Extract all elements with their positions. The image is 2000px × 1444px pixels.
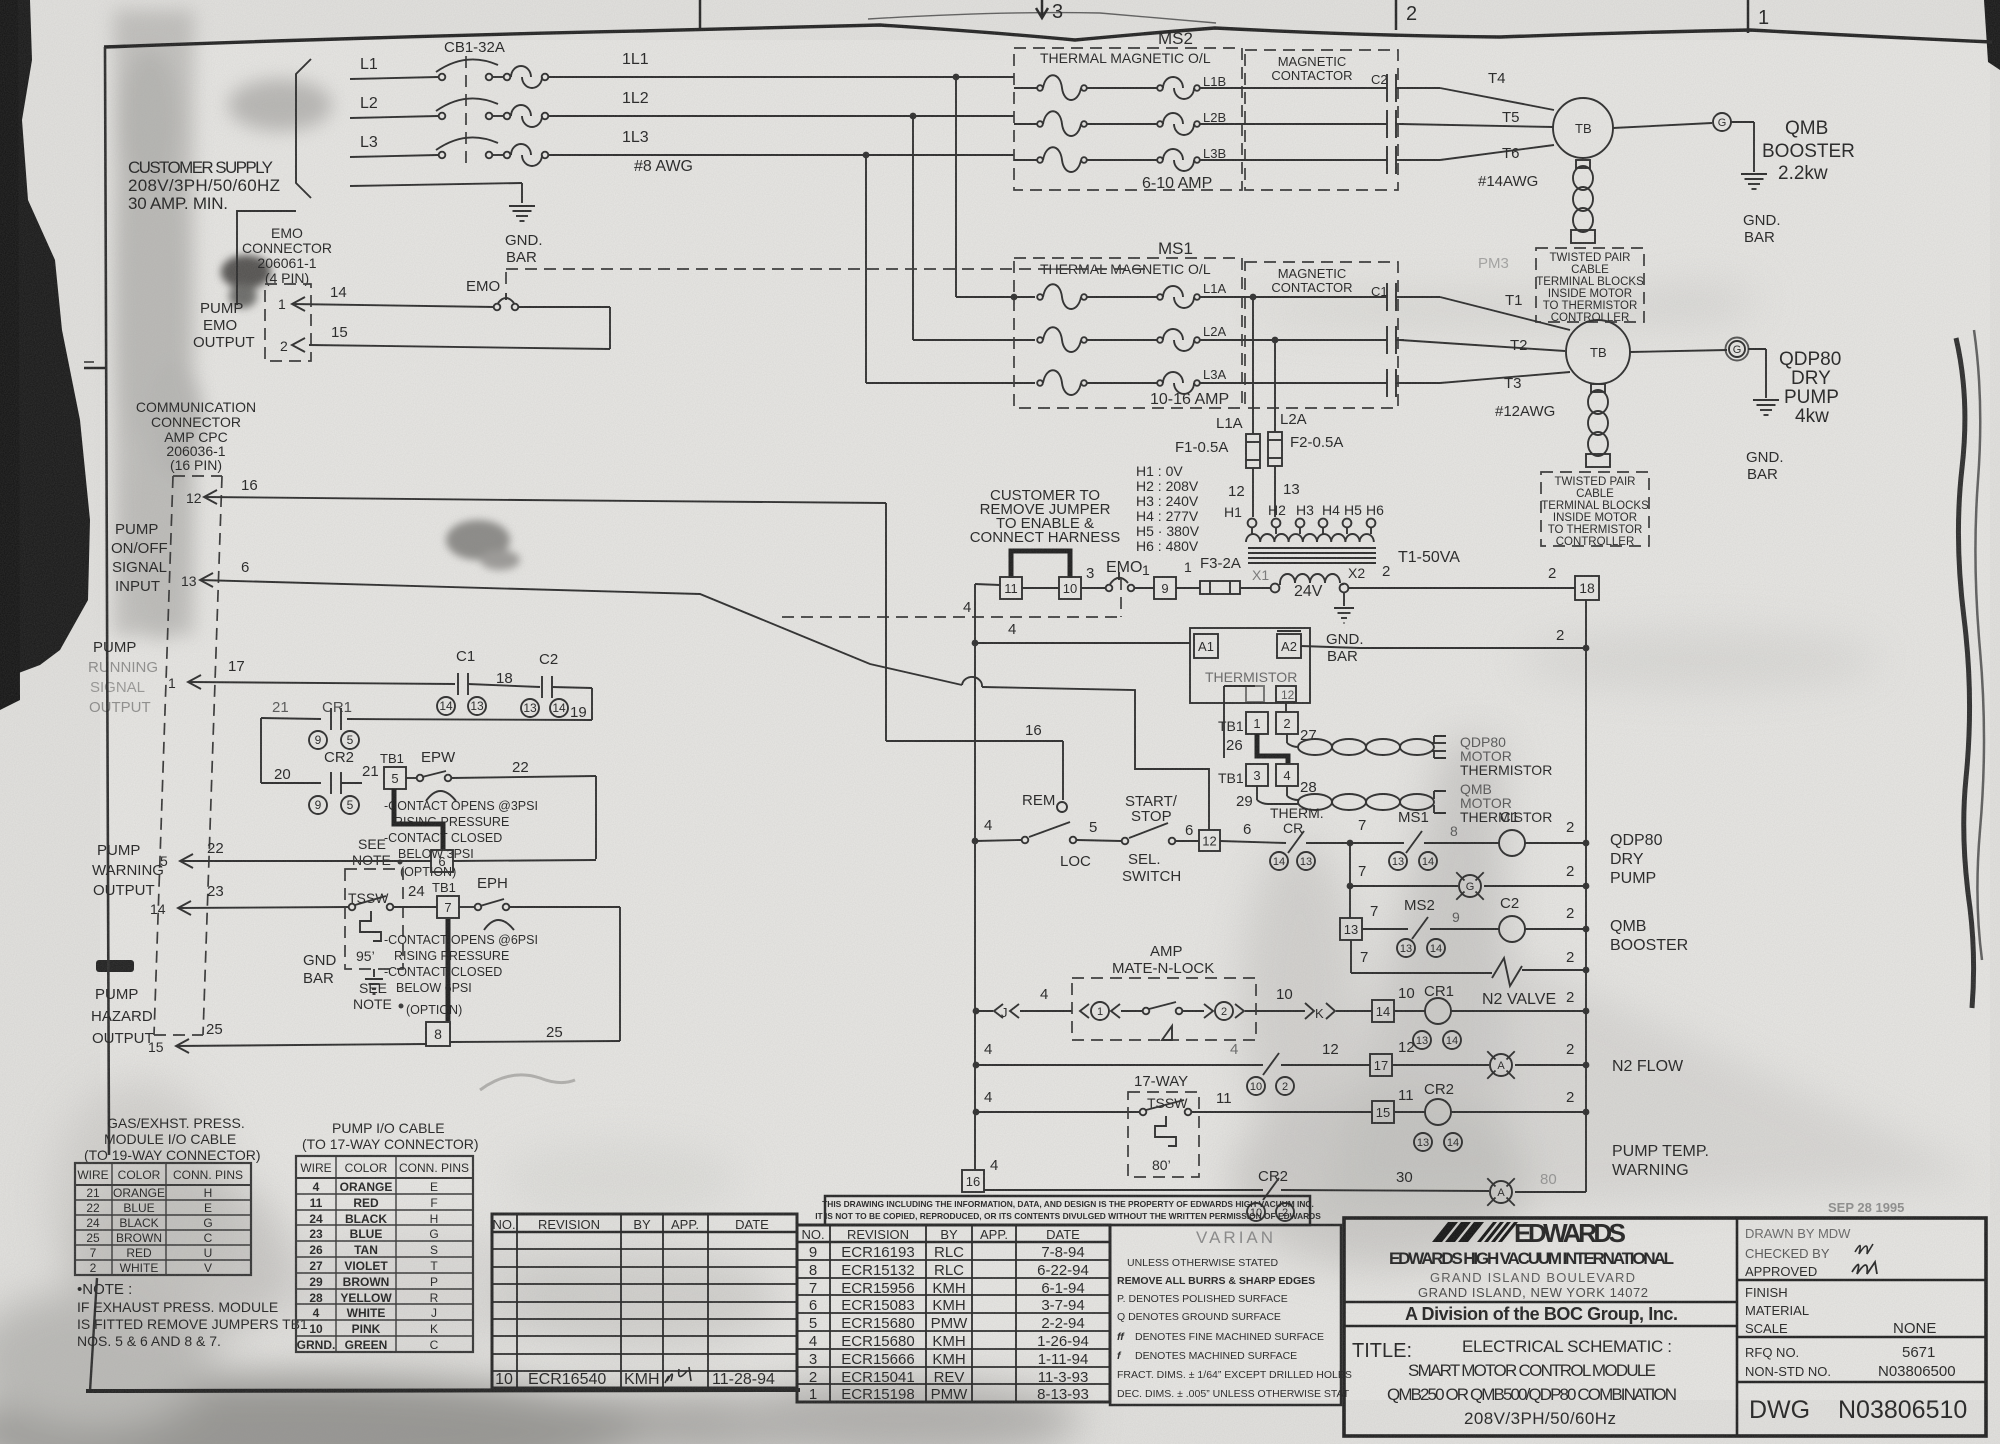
sel switch row — [972, 838, 979, 845]
left control bus — [974, 584, 976, 1170]
thermistor controller box — [1190, 628, 1310, 703]
secondary to X1 X2 — [1340, 584, 1344, 585]
wire 27 to twisted pair — [1286, 734, 1288, 743]
pump i/o wire table — [296, 1156, 473, 1352]
MS1 pole L3A — [1037, 380, 1043, 386]
ground bar symbol supply — [509, 205, 535, 207]
wire 14 — [292, 304, 494, 307]
T1 T2 T3 wires to dry pump motor — [1400, 296, 1440, 298]
TB1 terminal 8 — [426, 1022, 450, 1046]
margin tick — [84, 367, 105, 370]
A2 wire to bus — [1301, 646, 1360, 648]
fuse clips L2 — [511, 105, 531, 116]
edwards logo — [1432, 1222, 1458, 1242]
property text box — [825, 1196, 1310, 1225]
left border line — [105, 47, 109, 1155]
fuse F2 — [1268, 432, 1282, 466]
zone tick 2 — [1395, 0, 1398, 30]
gas/exhst wire table — [75, 1163, 251, 1275]
MS1 pole L1A — [1037, 294, 1043, 300]
twisted pair cable note box 1 — [1536, 248, 1644, 322]
pump temp warning TSSW row — [973, 1109, 980, 1116]
thermistor terminals 11 12 — [1246, 686, 1264, 702]
right control bus — [1585, 600, 1587, 1192]
thick jumper TB1 1-4 — [1257, 734, 1288, 764]
thick wire TB1-5 to 6 — [394, 789, 443, 849]
wire 4 to thermistor A1 — [972, 640, 979, 647]
wire 26 vertical from thermistor — [1223, 686, 1225, 758]
wire from box 13 down to N2 valve row — [1350, 940, 1352, 973]
N2 flow indicator lamp A — [1490, 1054, 1512, 1076]
zone tick 1 — [1747, 0, 1750, 33]
MS2 pole L1B — [1014, 87, 1037, 89]
MS1 pole L2A — [1037, 337, 1043, 343]
G ground terminal booster — [1613, 123, 1712, 128]
G ground terminal dry pump — [1630, 350, 1727, 352]
crease echo above border — [868, 13, 1216, 23]
terminal box 16 — [962, 1170, 984, 1192]
QMB motor thermistor pair — [1298, 794, 1332, 810]
CB1 pole arc L1 — [436, 59, 498, 72]
title block outer — [1344, 1218, 1986, 1436]
CB1 pole arc L2 — [436, 98, 498, 111]
thick jumper bar — [1011, 551, 1070, 578]
varian notes block — [1110, 1225, 1341, 1405]
indicator lamp G — [1459, 875, 1481, 897]
terminal box 13 — [1340, 918, 1362, 940]
right paper edge wavy line — [1956, 338, 1974, 1008]
magnetic contactor C1 box — [1245, 262, 1398, 408]
TSSW 95 thermal switch element — [360, 911, 381, 941]
TSSW 95 thermal switch — [345, 869, 403, 969]
left bleed-through strip — [114, 10, 332, 640]
terminal box 12 — [1199, 830, 1220, 851]
QDP80 dry pump motor TB — [1566, 320, 1630, 384]
G lamp row — [1349, 843, 1351, 886]
black scan edge top-right corner — [1984, 0, 2000, 70]
TB1 terminal 6 — [431, 850, 453, 872]
top border line — [104, 25, 1992, 47]
faint pencil scribble — [480, 1075, 575, 1090]
thick wire TB1-7 to 8 — [446, 919, 451, 1021]
fuse clips L1 — [511, 66, 531, 77]
EMO connector dashed box — [265, 284, 311, 361]
L1A L2A fuse taps — [1250, 294, 1257, 301]
wire 16 route — [885, 503, 887, 741]
twisted pair cable note box 2 — [1541, 472, 1649, 546]
magnetic contactor C2 box — [1245, 50, 1398, 190]
pump temp warning lamp A — [1490, 1181, 1512, 1203]
terminal box 14 — [1372, 1000, 1394, 1022]
MS2 pole L3B — [1014, 159, 1037, 161]
gnd under X2 — [1343, 592, 1345, 606]
terminal A1 — [1194, 634, 1218, 658]
QDP80 motor thermistor pair — [1298, 739, 1332, 755]
left revision table — [492, 1214, 797, 1388]
CB1 pole arc L3 — [436, 137, 498, 150]
core lines — [1248, 547, 1376, 549]
wires 29/28 to QMB pair — [1256, 786, 1258, 800]
bottom border line — [86, 1390, 800, 1391]
C2 QMB booster row — [1349, 886, 1351, 918]
wire 21 loop CR1 contact row — [347, 719, 592, 720]
twisted cable chain — [1573, 166, 1593, 190]
zone tick 3 with arrow — [699, 0, 702, 28]
wire from thermistor 12 down — [1285, 702, 1287, 712]
black scan edge left — [0, 0, 90, 680]
terminal box 17 — [1370, 1054, 1392, 1076]
small black mark left mid — [96, 960, 134, 972]
TSSW 80 thermal switch element — [1155, 1116, 1176, 1146]
EMO linkage dashed — [506, 268, 1150, 270]
jumper box 11 — [1000, 577, 1022, 599]
supply brace — [296, 59, 311, 198]
terminal A2 — [1277, 634, 1301, 658]
T4 T5 T6 wires to booster motor — [1400, 87, 1440, 89]
N2 valve heater zigzag element — [1492, 958, 1522, 986]
comm connector dashed box — [173, 475, 222, 477]
CR1 mate-n-lock row — [973, 1008, 980, 1015]
N2 flow row — [973, 1062, 980, 1069]
box 9 — [1154, 577, 1176, 599]
fuse F1 — [1246, 434, 1260, 468]
secondary winding — [1280, 574, 1340, 583]
terminal box 15 — [1372, 1101, 1394, 1123]
junction drops to MS1 — [953, 74, 960, 81]
wire loop to pin 2 — [519, 306, 610, 308]
jumper box 10 — [1059, 577, 1081, 599]
box 18 — [1575, 576, 1599, 600]
right revision table — [797, 1225, 1110, 1402]
neutral/4th supply line — [350, 183, 522, 186]
fuse clips L3 — [511, 144, 531, 155]
primary winding — [1246, 534, 1374, 542]
MS2 pole L2B — [1014, 123, 1037, 125]
QMB booster motor TB — [1553, 98, 1613, 158]
